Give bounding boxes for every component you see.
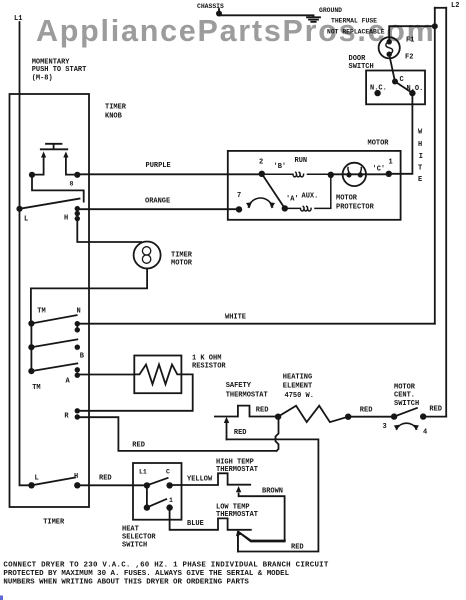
svg-text:F1: F1 xyxy=(406,37,414,45)
scan artifact corner xyxy=(0,596,3,600)
arrow low tstat xyxy=(236,530,242,537)
wire red mid horizontal to bottom box xyxy=(227,439,319,551)
svg-text:RED: RED xyxy=(132,442,145,450)
svg-text:DOOR: DOOR xyxy=(349,55,367,63)
heating element zigzag xyxy=(278,406,348,422)
resistor box xyxy=(134,356,181,394)
node heat elem right xyxy=(345,414,351,420)
svg-text:2: 2 xyxy=(259,159,263,167)
svg-text:4750 W.: 4750 W. xyxy=(285,392,314,400)
push button arrow stems xyxy=(32,157,77,175)
svg-text:HEAT: HEAT xyxy=(122,526,139,534)
node fuse F2 xyxy=(387,52,392,57)
thermal fuse element xyxy=(386,42,393,55)
svg-text:THERMAL FUSE: THERMAL FUSE xyxy=(331,17,377,24)
svg-text:SWITCH: SWITCH xyxy=(394,400,419,408)
heat selector blade L1-C xyxy=(147,478,168,485)
node chassis xyxy=(216,11,222,17)
wire H down to timer motor xyxy=(77,219,141,242)
node cent 3 xyxy=(391,413,397,419)
TM blade 1 xyxy=(31,315,76,323)
svg-text:PROTECTED BY MAXIMUM 30 A. FUS: PROTECTED BY MAXIMUM 30 A. FUSES. ALWAYS… xyxy=(3,570,289,578)
TM blade 3 xyxy=(31,363,77,371)
node protector left xyxy=(346,172,351,177)
door switch box xyxy=(366,71,425,105)
heat selector box xyxy=(133,463,182,520)
svg-text:WHITE: WHITE xyxy=(225,314,246,322)
node N1 xyxy=(75,321,80,326)
cent switch blade xyxy=(394,408,417,417)
thermal fuse circle xyxy=(379,37,400,58)
node motor A xyxy=(282,205,288,211)
node door NC xyxy=(374,90,380,96)
svg-text:N: N xyxy=(77,308,81,316)
arrow safety tstat xyxy=(224,417,229,423)
wire door NO to motor terminal1 xyxy=(389,93,413,174)
node timer L xyxy=(16,206,22,212)
wire red arrow drop xyxy=(226,422,228,440)
svg-text:THERMOSTAT: THERMOSTAT xyxy=(216,511,258,519)
wire TM column xyxy=(30,324,32,372)
svg-text:C: C xyxy=(400,76,404,84)
svg-text:RED: RED xyxy=(99,475,112,483)
svg-text:ORANGE: ORANGE xyxy=(145,198,170,206)
svg-text:H: H xyxy=(418,141,422,149)
svg-text:CENT.: CENT. xyxy=(394,392,415,400)
svg-text:RESISTOR: RESISTOR xyxy=(192,363,226,371)
resistor zigzag xyxy=(134,365,181,385)
node H3 xyxy=(75,216,80,221)
svg-text:'A': 'A' xyxy=(286,196,299,204)
svg-text:TIMER: TIMER xyxy=(105,104,127,112)
svg-text:L1: L1 xyxy=(139,469,147,476)
push button symbol xyxy=(41,144,68,150)
wire heat elem node down with hop xyxy=(276,417,279,451)
wire R lower to red line xyxy=(77,417,276,451)
svg-text:RED: RED xyxy=(234,429,247,437)
node hs bottomleft xyxy=(144,504,150,510)
node hs C xyxy=(166,482,172,488)
node H1 xyxy=(75,206,80,211)
node start left xyxy=(29,172,35,178)
node door C xyxy=(392,79,398,85)
node hs L1 xyxy=(144,482,150,488)
wire safety tstat stub xyxy=(215,406,279,417)
arrow cent3 left xyxy=(394,425,399,431)
svg-text:THERMOSTAT: THERMOSTAT xyxy=(226,392,268,400)
node TM1 xyxy=(28,320,34,326)
svg-text:TM: TM xyxy=(32,384,40,392)
arrow high tstat xyxy=(236,486,241,492)
svg-text:'B': 'B' xyxy=(274,163,287,171)
svg-text:ELEMENT: ELEMENT xyxy=(283,383,312,391)
svg-text:L2: L2 xyxy=(451,2,459,10)
node cent 4 xyxy=(420,413,426,419)
svg-text:NOT REPLACEABLE: NOT REPLACEABLE xyxy=(327,28,385,35)
svg-text:SAFETY: SAFETY xyxy=(226,382,252,390)
wire white-net vertical xyxy=(434,8,436,324)
wire brown path xyxy=(239,494,285,542)
node hs 1 xyxy=(166,504,172,510)
svg-text:3: 3 xyxy=(383,423,387,431)
heat selector L1 down xyxy=(146,485,148,507)
svg-text:KNOB: KNOB xyxy=(105,113,123,121)
node L2 fuse junction xyxy=(432,23,438,29)
node heat elem left xyxy=(275,414,281,420)
node timer H low xyxy=(74,482,80,488)
heat selector blade to 1 xyxy=(149,499,166,506)
node H2 xyxy=(75,211,80,216)
svg-text:E: E xyxy=(418,176,422,184)
svg-text:N.O.: N.O. xyxy=(407,85,424,93)
svg-text:1 K OHM: 1 K OHM xyxy=(192,355,221,363)
node motor 1 xyxy=(386,171,392,177)
svg-text:CHASSIS: CHASSIS xyxy=(197,3,224,10)
door switch blade xyxy=(395,82,412,94)
timer motor loops xyxy=(142,247,150,255)
node A1 xyxy=(75,367,80,372)
svg-text:PUSH TO START: PUSH TO START xyxy=(32,66,87,74)
svg-text:F2: F2 xyxy=(405,54,413,62)
wire heating elem to cent switch xyxy=(348,416,394,418)
timer motor circle xyxy=(134,242,161,269)
svg-text:RED: RED xyxy=(360,407,373,415)
wire purple xyxy=(77,173,261,175)
svg-text:(M-8): (M-8) xyxy=(32,75,53,83)
ground xyxy=(307,17,320,22)
arrow start right xyxy=(63,152,68,158)
svg-text:TM: TM xyxy=(37,308,45,316)
svg-text:RUN: RUN xyxy=(295,157,308,165)
node door NO xyxy=(409,90,415,96)
svg-text:PURPLE: PURPLE xyxy=(146,162,171,170)
motor aux winding xyxy=(285,175,331,211)
TM blade 2 xyxy=(31,339,77,347)
motor protector circle xyxy=(343,163,366,186)
svg-text:CONNECT DRYER TO 230 V.A.C. ,6: CONNECT DRYER TO 230 V.A.C. ,60 HZ. 1 PH… xyxy=(3,561,328,569)
svg-text:GROUND: GROUND xyxy=(319,7,342,14)
node motor 7 xyxy=(236,206,242,212)
wire L1 vertical xyxy=(20,22,32,485)
svg-text:SWITCH: SWITCH xyxy=(122,542,147,550)
svg-text:MOTOR: MOTOR xyxy=(336,195,358,203)
wire heat selector C to high tstat xyxy=(170,473,251,485)
svg-text:BROWN: BROWN xyxy=(262,488,283,496)
motor box xyxy=(228,151,401,220)
node timer L low xyxy=(28,482,34,488)
wire heat sel 1 to low tstat xyxy=(170,508,251,530)
wire A to resistor xyxy=(77,374,134,376)
wire fuse to door switch C xyxy=(389,55,395,82)
svg-text:YELLOW: YELLOW xyxy=(187,476,213,484)
node N2 xyxy=(75,327,80,332)
svg-text:1: 1 xyxy=(389,159,393,167)
svg-text:TIMER: TIMER xyxy=(43,519,65,527)
wire L2 vertical xyxy=(445,8,447,417)
motor blade 2 to A xyxy=(262,174,285,209)
svg-text:1: 1 xyxy=(169,497,173,504)
wire L2 top jog xyxy=(435,7,446,9)
svg-text:PROTECTOR: PROTECTOR xyxy=(336,204,375,212)
cent switch arc xyxy=(397,423,417,429)
wire protector to C1 xyxy=(331,173,389,175)
svg-text:HEATING: HEATING xyxy=(283,374,312,382)
node start right xyxy=(74,172,80,178)
wire timer H to heat selector xyxy=(77,484,147,486)
wire timer motor bottom to TM xyxy=(31,269,147,324)
svg-text:TIMER: TIMER xyxy=(171,252,193,260)
timer L blade xyxy=(20,199,80,209)
svg-text:NUMBERS WHEN WRITING ABOUT THI: NUMBERS WHEN WRITING ABOUT THIS DRYER OR… xyxy=(3,579,249,587)
svg-text:L1: L1 xyxy=(14,15,22,23)
low tstat red diagonal xyxy=(238,532,285,551)
svg-text:BLUE: BLUE xyxy=(187,520,204,528)
svg-text:H: H xyxy=(74,473,78,481)
timer start wire xyxy=(32,175,84,202)
svg-text:RED: RED xyxy=(291,544,304,552)
svg-text:C: C xyxy=(166,469,170,476)
wire chassis to ground xyxy=(219,9,314,17)
svg-text:4: 4 xyxy=(423,429,427,437)
wire white horizontal xyxy=(77,323,435,325)
node R1 xyxy=(75,408,80,413)
arrow cent4 right xyxy=(414,425,419,431)
node fuse F1 xyxy=(387,39,392,44)
node A2 xyxy=(75,373,80,378)
svg-text:8: 8 xyxy=(70,181,74,188)
svg-text:N.C.: N.C. xyxy=(370,85,387,93)
svg-text:AUX.: AUX. xyxy=(302,193,319,201)
svg-text:L: L xyxy=(35,475,39,483)
svg-text:SWITCH: SWITCH xyxy=(349,63,374,71)
timer LH blade xyxy=(32,478,76,486)
node protector right xyxy=(358,172,363,177)
svg-text:H: H xyxy=(64,215,68,223)
svg-text:RED: RED xyxy=(256,407,269,415)
wire resistor right to R xyxy=(77,374,192,410)
node B xyxy=(75,345,80,350)
arrow cent left xyxy=(246,202,252,208)
svg-text:L: L xyxy=(24,216,28,224)
svg-text:RED: RED xyxy=(429,406,442,414)
svg-text:I: I xyxy=(419,153,423,161)
motor protector tails xyxy=(348,168,362,174)
svg-text:MOTOR: MOTOR xyxy=(394,384,416,392)
node R2 xyxy=(75,414,80,419)
motor centrifugal arc xyxy=(249,198,273,207)
arrow cent right xyxy=(269,202,275,208)
svg-text:MOTOR: MOTOR xyxy=(171,260,193,268)
node motor 2 xyxy=(259,171,265,177)
node TM3 xyxy=(28,368,34,374)
wire N to white xyxy=(76,324,78,330)
svg-text:MOTOR: MOTOR xyxy=(368,140,390,148)
node TM2 xyxy=(28,344,34,350)
arrow start left xyxy=(41,152,46,158)
timer box xyxy=(10,94,90,507)
svg-text:THERMOSTAT: THERMOSTAT xyxy=(216,466,258,474)
motor run winding xyxy=(262,172,331,177)
svg-text:7: 7 xyxy=(237,192,241,200)
svg-text:'C': 'C' xyxy=(373,166,386,174)
wire thermal fuse feed xyxy=(389,26,435,41)
bottom note paragraph xyxy=(3,561,328,586)
wire orange xyxy=(77,208,239,210)
node motor junction xyxy=(328,172,334,178)
svg-text:T: T xyxy=(418,165,422,173)
svg-text:SELECTOR: SELECTOR xyxy=(122,534,156,542)
wire cent switch 4 to L2 xyxy=(423,416,446,418)
